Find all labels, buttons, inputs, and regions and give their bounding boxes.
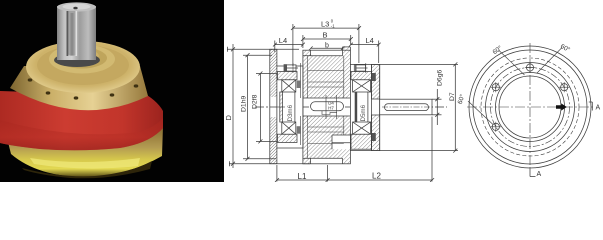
dim L2: [328, 117, 435, 182]
svg-text:60°: 60°: [456, 93, 467, 105]
right fastener: [354, 63, 367, 73]
dimension D1h9: [247, 55, 249, 159]
photo: shaft: [54, 53, 100, 67]
svg-text:A: A: [596, 105, 601, 112]
svg-text:60°: 60°: [491, 44, 504, 56]
svg-text:D1h9: D1h9: [241, 96, 248, 112]
left housing body: [277, 66, 303, 148]
right spacer band: [355, 92, 358, 122]
photo background: [0, 0, 224, 182]
left housing hatch bottom: [278, 134, 298, 142]
svg-text:D5m6: D5m6: [360, 104, 367, 121]
outer circle: [469, 46, 591, 168]
left housing hatch top: [278, 72, 298, 80]
svg-text:D2f8: D2f8: [252, 94, 259, 109]
right housing hatch top: [351, 72, 372, 80]
svg-text:L2: L2: [372, 172, 381, 181]
svg-text:D: D: [224, 115, 233, 121]
hub bore: [303, 97, 351, 99]
shaft: [380, 99, 434, 115]
leader 60 top-right: [537, 48, 562, 74]
svg-text:D3m6: D3m6: [287, 104, 294, 121]
svg-text:L3: L3: [321, 19, 329, 28]
dim b: [309, 43, 344, 51]
dimension D: [232, 44, 234, 168]
left bearing lower: [282, 122, 296, 134]
leader 60 left: [468, 101, 493, 125]
bore circle: [499, 76, 561, 138]
axis centerline: [255, 106, 447, 108]
hub face double lines: [300, 63, 302, 98]
svg-text:H7: H7: [328, 105, 334, 110]
right bearing upper: [353, 80, 371, 92]
bolt hole upper-left: [491, 82, 501, 92]
photo: red flange disc: [0, 91, 163, 150]
dim D6g6: [432, 70, 444, 125]
hub counterbore lines: [332, 134, 350, 136]
photo: bolt holes on face: [28, 78, 139, 99]
keyway arrow: [556, 103, 567, 110]
hub hatch top: [303, 56, 351, 98]
svg-text:b: b: [325, 43, 329, 50]
svg-text:D7: D7: [449, 92, 456, 101]
dim B: [301, 30, 353, 48]
photo: brass base cylinder: [4, 126, 163, 177]
dim D7: [380, 62, 458, 152]
left bearing upper: [282, 80, 296, 92]
right housing hatch bottom: [351, 134, 372, 149]
svg-text:L4: L4: [366, 36, 374, 45]
left sleeve section: [280, 92, 283, 122]
left seals: [297, 81, 301, 89]
photo: brass cone hub: [10, 66, 148, 110]
right circular view: [456, 42, 601, 178]
hub internal steps: [308, 70, 344, 72]
svg-text:A: A: [537, 171, 542, 178]
bolt circle dash-dot: [491, 68, 570, 147]
hub hatch bottom: [303, 116, 351, 158]
key step detail: [322, 111, 337, 115]
hub body: [303, 47, 351, 164]
flange bottom extension: [229, 163, 310, 165]
bolt hole upper-right: [559, 82, 569, 92]
lip hatch: [303, 50, 311, 56]
dim L4 left: [273, 36, 305, 52]
right bearing lower: [353, 122, 371, 134]
face circle: [486, 63, 575, 152]
dim L3: [291, 19, 361, 66]
svg-text:D6g6: D6g6: [437, 70, 444, 86]
bolt hole lower-left: [491, 122, 501, 132]
svg-text:L4: L4: [279, 36, 287, 45]
dim L4 right: [349, 36, 381, 63]
hidden circle dashed: [481, 58, 579, 156]
section mark bottom: [530, 169, 542, 178]
flange top extension: [227, 48, 299, 50]
leader 60 top-left: [499, 50, 525, 75]
dimension D2f8: [259, 74, 261, 142]
right seals: [372, 73, 376, 81]
svg-text:-1: -1: [331, 23, 335, 28]
bolt hole top: [525, 62, 535, 72]
svg-text:60°: 60°: [559, 42, 572, 54]
second circle: [473, 50, 587, 164]
crosshair centerlines: [467, 106, 595, 108]
central slot: [311, 102, 344, 111]
flange plate: [270, 49, 277, 163]
svg-text:B: B: [323, 30, 328, 39]
svg-text:L1: L1: [298, 172, 307, 181]
right housing: [350, 64, 379, 150]
right wall hatch: [372, 64, 380, 99]
left fastener: [284, 63, 298, 73]
dim L1: [275, 165, 330, 182]
section mark right: [589, 102, 601, 112]
inner ring circle: [496, 73, 565, 142]
